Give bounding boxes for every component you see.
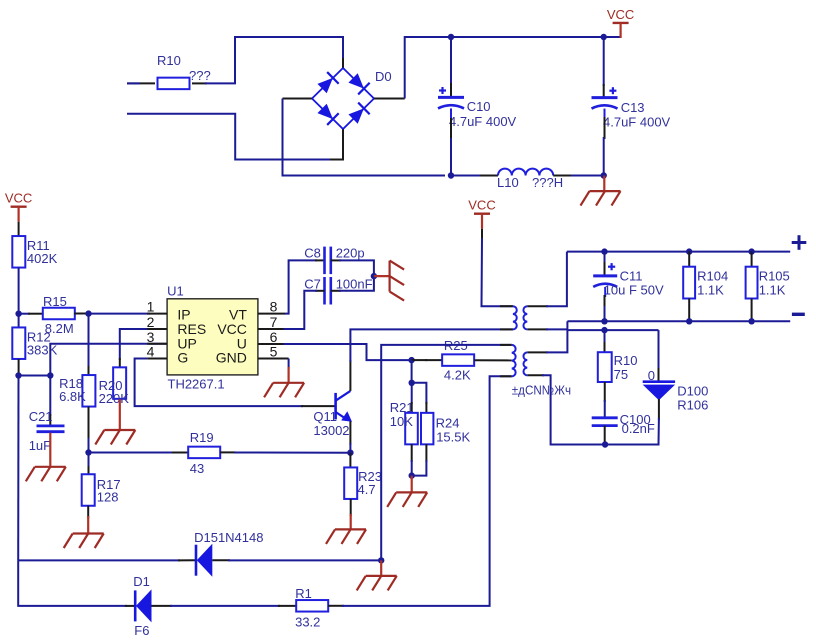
capacitor C100 <box>592 416 618 419</box>
wire R10 to bridge top <box>192 82 207 84</box>
svg-text:15.5K: 15.5K <box>436 430 470 445</box>
terminal minus <box>792 313 805 316</box>
svg-text:R106: R106 <box>677 398 708 413</box>
wire into D1 <box>125 605 135 607</box>
wire to R24 <box>412 383 427 404</box>
wire pin8 to C8 <box>285 260 317 313</box>
wire stub aux bottom <box>500 375 512 377</box>
wire secondary bottom winding top <box>527 351 548 353</box>
wire collector <box>349 360 351 391</box>
svg-text:VCC: VCC <box>468 198 495 213</box>
U1 pin 2 <box>147 328 167 330</box>
wire bottom rail to L10 <box>451 175 483 177</box>
node C8-C7-ground <box>371 273 377 279</box>
svg-text:C21: C21 <box>29 409 53 424</box>
svg-text:220p: 220p <box>336 246 365 261</box>
wire R25 right to winding tap <box>474 359 511 361</box>
svg-text:1uF: 1uF <box>29 438 51 453</box>
resistor R24 <box>421 413 433 445</box>
node R25 left <box>408 357 414 363</box>
svg-text:F6: F6 <box>134 623 149 638</box>
svg-text:R104: R104 <box>697 269 728 284</box>
svg-text:1.1K: 1.1K <box>697 283 724 298</box>
svg-text:GND: GND <box>216 350 247 366</box>
wire R12 to node <box>18 359 20 376</box>
resistor R21 <box>405 413 418 445</box>
wire left rail R12 <box>18 314 20 328</box>
svg-text:4.2K: 4.2K <box>444 368 471 383</box>
svg-text:4.7uF 400V: 4.7uF 400V <box>603 115 671 130</box>
wire to R25 <box>412 359 427 361</box>
wire emitter <box>349 421 351 445</box>
wire plus rail <box>567 251 790 253</box>
transformer secondary bottom winding <box>523 352 527 375</box>
node R104 top <box>686 248 692 254</box>
wire D15 line <box>18 559 180 561</box>
svg-text:R21: R21 <box>390 400 414 415</box>
node R104 bottom <box>686 318 692 324</box>
node C21 top <box>47 372 53 378</box>
ground below R23 <box>350 499 352 516</box>
node bottom rail <box>602 441 608 447</box>
capacitor C7 <box>323 277 326 305</box>
svg-text:R19: R19 <box>190 430 214 445</box>
wire secondary mid <box>527 328 548 330</box>
svg-text:???H: ???H <box>532 175 563 190</box>
node pin3 to C21 wire <box>50 344 167 376</box>
wire secondary top to plus rail <box>527 305 548 307</box>
svg-text:7: 7 <box>270 314 278 330</box>
svg-text:6.8K: 6.8K <box>59 389 86 404</box>
wire D1 to R1 <box>151 605 172 607</box>
diode D15 <box>195 545 198 576</box>
svg-text:4.7uF 400V: 4.7uF 400V <box>449 114 517 129</box>
ground below R17 <box>87 506 89 518</box>
wire R24 bottom <box>425 444 427 462</box>
wire R10 line <box>567 329 658 331</box>
wire pin6 net <box>284 344 412 360</box>
svg-text:0.2nF: 0.2nF <box>622 421 655 436</box>
resistor R1 <box>296 600 328 612</box>
wire R19 line <box>89 452 175 454</box>
svg-text:3: 3 <box>147 329 155 345</box>
node R15 left <box>15 311 21 317</box>
svg-text:U1: U1 <box>167 284 184 299</box>
capacitor C13 <box>603 37 605 86</box>
svg-text:1: 1 <box>147 299 155 315</box>
node R15 right <box>85 310 91 316</box>
ground pin5 <box>288 359 290 370</box>
wire stub aux top <box>500 344 512 346</box>
svg-text:128: 128 <box>97 490 119 505</box>
ground below D15 node <box>380 560 382 576</box>
resistor R10 <box>158 78 190 90</box>
wire minus rail <box>567 320 790 322</box>
svg-text:±дCN№Жч: ±дCN№Жч <box>512 382 571 397</box>
U1 pin 6 <box>258 343 284 345</box>
U1 pin 5 <box>258 358 289 360</box>
svg-text:D151N4148: D151N4148 <box>194 530 263 545</box>
svg-text:R105: R105 <box>759 269 790 284</box>
svg-text:L10: L10 <box>497 175 519 190</box>
svg-text:D0: D0 <box>375 69 392 84</box>
svg-text:C10: C10 <box>467 99 491 114</box>
svg-text:D1: D1 <box>133 574 150 589</box>
resistor R104 <box>688 252 690 267</box>
wire node down <box>411 360 413 383</box>
resistor R15 <box>19 313 30 315</box>
resistor R10 secondary <box>604 330 606 344</box>
svg-text:R1: R1 <box>295 586 312 601</box>
resistor R19 <box>188 447 220 459</box>
svg-text:220K: 220K <box>99 391 130 406</box>
svg-text:C7: C7 <box>304 276 321 291</box>
svg-text:R10: R10 <box>614 353 638 368</box>
svg-text:4: 4 <box>147 344 155 360</box>
svg-text:D100: D100 <box>677 384 708 399</box>
node R18 bottom <box>85 449 91 455</box>
svg-text:10K: 10K <box>390 414 413 429</box>
transistor Q11 <box>334 393 337 420</box>
wire left rail down <box>17 376 19 561</box>
capacitor C10 <box>450 37 452 85</box>
svg-text:Q11: Q11 <box>313 409 337 424</box>
wire aux winding top net <box>381 345 512 561</box>
svg-text:C8: C8 <box>304 246 321 261</box>
node C13 bottom <box>601 172 607 178</box>
diode D1 <box>134 590 137 621</box>
capacitor C11 <box>604 252 606 264</box>
svg-text:1.1K: 1.1K <box>759 283 786 298</box>
svg-text:2: 2 <box>147 314 155 330</box>
capacitor C21 <box>49 376 51 417</box>
resistor R12 <box>12 327 25 359</box>
node C10 top <box>448 34 454 40</box>
U1 pin 4 <box>147 358 167 360</box>
svg-text:VCC: VCC <box>5 191 32 206</box>
svg-text:R24: R24 <box>436 416 460 431</box>
U1 pin 3 <box>147 343 167 345</box>
svg-text:402K: 402K <box>27 251 58 266</box>
ground below C21 <box>49 433 51 467</box>
svg-text:R10: R10 <box>157 53 181 68</box>
bridge rectifier D0 <box>312 68 343 99</box>
svg-text:43: 43 <box>190 461 204 476</box>
wire C8 right <box>331 259 341 261</box>
ground below R21 R24 <box>411 476 413 493</box>
resistor R23 <box>349 453 351 468</box>
node C13 top <box>601 34 607 40</box>
power VCC above transformer <box>474 212 490 214</box>
svg-text:13002: 13002 <box>313 423 349 438</box>
wire R11 to node <box>18 268 20 314</box>
ground below C13 <box>603 176 605 192</box>
resistor R17 <box>88 453 90 469</box>
wire stub primary bottom <box>500 328 513 330</box>
power VCC left <box>11 205 27 207</box>
wire C7 left to pin7 <box>315 290 325 292</box>
svg-text:G: G <box>177 350 188 366</box>
svg-text:C11: C11 <box>620 269 643 284</box>
node emitter R19 R23 <box>347 450 353 456</box>
wire R12node-C21node <box>19 375 51 377</box>
svg-text:0: 0 <box>648 368 655 383</box>
wire stub primary top <box>500 305 513 307</box>
U1 pin 8 <box>258 313 285 315</box>
node R21 R24 top <box>409 380 415 386</box>
wire D100 to bottom rail <box>658 399 660 420</box>
node R105 top <box>748 248 754 254</box>
wire into D15 <box>178 559 196 561</box>
resistor R105 <box>751 252 753 267</box>
diode D100 R106 <box>658 330 660 370</box>
wire base <box>301 405 335 407</box>
U1 pin 1 <box>147 313 167 315</box>
capacitor C8 <box>323 247 326 275</box>
svg-text:???: ??? <box>189 68 211 83</box>
resistor R25 <box>442 354 474 366</box>
node C11 bottom <box>601 318 607 324</box>
svg-text:VCC: VCC <box>607 7 634 22</box>
node R105 bottom <box>748 318 754 324</box>
transformer aux winding <box>512 345 516 376</box>
svg-text:33.2: 33.2 <box>295 615 320 630</box>
wire node to R18 <box>88 314 90 368</box>
resistor R20 <box>113 367 126 399</box>
wire R1 right to aux winding bottom <box>328 605 344 607</box>
wire AC input bottom <box>127 114 336 160</box>
wire pin2 to R20 <box>120 329 167 360</box>
inductor L10 <box>498 169 553 176</box>
wire L10 to C13 bottom <box>553 175 573 177</box>
svg-text:C13: C13 <box>621 100 645 115</box>
terminal plus <box>792 241 807 244</box>
U1 pin 7 <box>258 328 285 330</box>
wire VCC to primary top <box>481 229 483 240</box>
svg-text:10u F 50V: 10u F 50V <box>604 283 664 298</box>
op-amp U1 TH2267.1 body <box>167 299 258 375</box>
svg-text:4.7: 4.7 <box>358 482 376 497</box>
svg-text:5: 5 <box>270 344 278 360</box>
ground right of C8 C7 <box>374 275 390 277</box>
wire bridge right to top rail <box>374 98 405 100</box>
power VCC top right <box>613 22 629 24</box>
svg-text:100nF: 100nF <box>336 276 373 291</box>
node C11 top <box>601 248 607 254</box>
node R12 bottom <box>15 372 21 378</box>
transformer primary winding <box>513 306 517 329</box>
ground below R20 <box>119 399 121 430</box>
node D15 right <box>378 557 384 563</box>
wire bridge left to bottom rail <box>283 98 313 100</box>
node C10 bottom <box>448 172 454 178</box>
wire to R21 <box>411 383 413 404</box>
wire AC input top <box>127 82 155 84</box>
svg-text:TH2267.1: TH2267.1 <box>168 377 225 392</box>
wire pin4 to Q11 base <box>135 359 303 407</box>
transformer secondary top winding <box>523 306 527 329</box>
resistor R18 <box>82 375 95 407</box>
wire R10 to C100 <box>604 382 606 402</box>
svg-text:8.2M: 8.2M <box>45 321 74 336</box>
svg-text:8: 8 <box>270 299 278 315</box>
wire R21 bottom <box>411 444 413 462</box>
wire D15 to node <box>212 559 230 561</box>
resistor R11 <box>12 236 25 267</box>
svg-text:75: 75 <box>614 367 628 382</box>
wire secondary bottom to bottom rail <box>527 374 544 376</box>
wire VCC to R11 <box>18 222 20 237</box>
wire C7 right <box>331 290 341 292</box>
wire bottom rail left <box>18 560 127 606</box>
wire pin1 net <box>89 313 151 315</box>
node R21 R24 bottom <box>409 472 415 478</box>
svg-text:R15: R15 <box>43 294 67 309</box>
node R10 top <box>601 327 607 333</box>
